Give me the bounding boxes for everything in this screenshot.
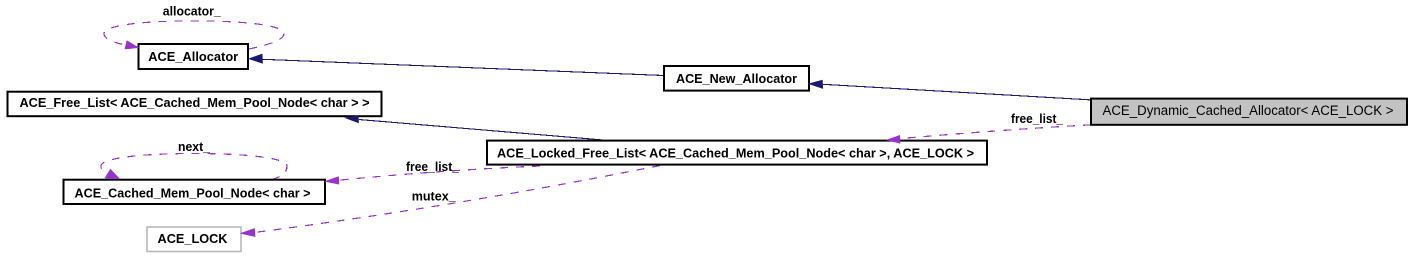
- svg-text:ACE_Locked_Free_List< ACE_Cach: ACE_Locked_Free_List< ACE_Cached_Mem_Poo…: [497, 146, 974, 161]
- wire: inheritance edge ACE_Locked_Free_List -> ACE_Free_List: [359, 120, 603, 141]
- node ACE_Cached_Mem_Pool_Node< char >: [64, 180, 326, 204]
- svg-text:ACE_New_Allocator: ACE_New_Allocator: [676, 71, 797, 86]
- node ACE_Allocator: [139, 44, 249, 69]
- svg-text:free_list_: free_list_: [1011, 111, 1064, 126]
- svg-text:ACE_Dynamic_Cached_Allocator<: ACE_Dynamic_Cached_Allocator< ACE_LOCK >: [1103, 103, 1394, 118]
- arrowhead: next_ self-loop into ACE_Cached_Mem_Pool_Node: [105, 169, 121, 180]
- self-loop allocator_ ellipse on ACE_Allocator: [104, 21, 284, 49]
- arrowhead: allocator_ self-loop into ACE_Allocator: [125, 40, 140, 49]
- wire: dashed usage edge free_list_ (ACE_Dynamic_Cached_Allocator -> ACE_Locked_Free_List): [900, 125, 1091, 139]
- wire: inheritance edge ACE_Dynamic_Cached_Allocator -> ACE_New_Allocator: [823, 84, 1091, 100]
- svg-text:ACE_Allocator: ACE_Allocator: [148, 49, 238, 64]
- node ACE_New_Allocator: [664, 66, 809, 91]
- arrowhead: purple free_list_ into ACE_Locked_Free_List top edge: [886, 135, 901, 144]
- svg-text:ACE_Cached_Mem_Pool_Node< char: ACE_Cached_Mem_Pool_Node< char >: [75, 186, 311, 201]
- svg-text:ACE_LOCK: ACE_LOCK: [158, 231, 229, 246]
- arrowhead: purple free_list_ into ACE_Cached_Mem_Pool_Node right edge: [324, 176, 339, 184]
- node ACE_Dynamic_Cached_Allocator< ACE_LOCK > (current, gray): [1091, 99, 1407, 125]
- svg-text:allocator_: allocator_: [163, 4, 222, 19]
- wire: dashed usage edge mutex_ (ACE_Locked_Free_List -> ACE_LOCK): [255, 166, 660, 233]
- svg-text:ACE_Free_List< ACE_Cached_Mem_: ACE_Free_List< ACE_Cached_Mem_Pool_Node<…: [20, 95, 370, 110]
- svg-text:mutex_: mutex_: [412, 189, 457, 204]
- arrowhead: navy into ACE_Allocator right edge: [248, 54, 263, 64]
- wire: inheritance edge ACE_New_Allocator -> ACE_Allocator: [263, 59, 665, 75]
- arrowhead: purple mutex_ into ACE_LOCK right edge: [240, 228, 256, 237]
- node ACE_Free_List< ACE_Cached_Mem_Pool_Node< char > >: [8, 92, 382, 117]
- arrowhead: navy into ACE_Free_List bottom edge: [344, 115, 359, 123]
- svg-text:free_list_: free_list_: [406, 159, 460, 174]
- wire: dashed usage edge free_list_ (ACE_Locked_Free_List -> ACE_Cached_Mem_Pool_Node): [339, 166, 540, 180]
- self-loop next_ ellipse on ACE_Cached_Mem_Pool_Node: [101, 154, 287, 180]
- arrowhead: navy into ACE_New_Allocator right edge: [808, 80, 823, 89]
- node ACE_Locked_Free_List< ACE_Cached_Mem_Pool_Node< char >, ACE_LOCK >: [487, 141, 987, 165]
- svg-text:next_: next_: [178, 139, 211, 154]
- node ACE_LOCK (gray border): [147, 227, 241, 252]
